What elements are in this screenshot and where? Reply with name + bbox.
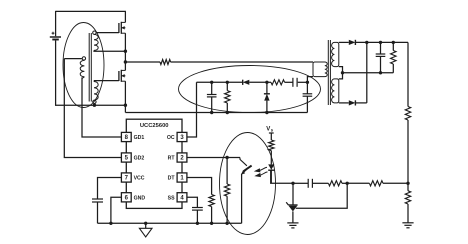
svg-text:OC: OC (167, 135, 175, 141)
node D2 top junction (265, 81, 268, 84)
node GND riser on rail (109, 222, 112, 225)
wire DT pin to Rdt (187, 178, 212, 195)
wire center-tap rail (343, 72, 394, 74)
wire D1 anode to D2 node (249, 81, 267, 83)
node TL431 ref riser (346, 182, 349, 185)
opto U2 LED (268, 164, 274, 169)
wire switch node to series resistor (125, 61, 160, 63)
resistor Rdt (209, 195, 214, 207)
node signal-ground symbol junction (144, 222, 147, 225)
T1 secondary 2 phase-dot (93, 100, 96, 103)
capacitor Coc1 (207, 82, 217, 112)
resistor Roc2 (267, 81, 271, 83)
wire RT pin to opto collector (187, 157, 240, 159)
wire riser from D4 to output rail (366, 42, 368, 103)
svg-text:RT: RT (168, 156, 176, 162)
wire VCC pin to decoupling cap (98, 178, 122, 200)
wire Q1 source to switch node (124, 51, 126, 62)
highlight ellipse: gate-drive transformer (63, 23, 104, 108)
wire D4 cathode to output rail riser (356, 102, 367, 104)
ground (signal, triangle) (139, 223, 152, 237)
wire T1 sec2 dot to return rail (93, 103, 95, 105)
node resonant cap junction (306, 81, 309, 84)
svg-text:VCC: VCC (134, 176, 145, 182)
node Rrt on ground rail (225, 222, 228, 225)
wire T2 sec top-half to rectifier D3 (339, 41, 349, 43)
gate-drive transformer T1 primary winding (64, 59, 84, 79)
node RT resistor tap (225, 156, 228, 159)
node switch node (half-bridge midpoint) (124, 60, 127, 63)
wire T1 sec1 return to Q1 source node (94, 49, 125, 52)
wire ground rail (98, 222, 242, 224)
highlight ellipse: optocoupler feedback (220, 133, 276, 235)
resistor Rfb2 (328, 181, 342, 186)
wire output rail (356, 41, 408, 43)
node Roc1 top (226, 81, 229, 84)
wire T2 sec bottom-half to rectifier D4 (339, 102, 349, 104)
main transformer T2 core (327, 40, 329, 105)
wire resistor to T2 primary (171, 61, 313, 63)
T1 secondary winding 1 (top, drives Q1) (94, 34, 98, 50)
pin 8 GD1 (121, 132, 131, 141)
IC U1 UCC25600 box (126, 119, 182, 208)
battery VIN (DC bus source) (50, 11, 61, 106)
node T1 sec2 return on rail (93, 104, 96, 107)
T2 secondary winding (bottom half) (332, 79, 339, 103)
wire output rail down to divider (407, 42, 409, 106)
T2 secondary winding (top half) (332, 42, 339, 66)
node Rdt on ground rail (210, 222, 213, 225)
opto light arrows (258, 167, 267, 171)
svg-text:GND: GND (134, 195, 146, 201)
node Coc1 top (210, 81, 213, 84)
svg-text:GD1: GD1 (134, 135, 145, 141)
highlight ellipse: resonant/OC sense network (179, 66, 321, 113)
resistor lower divider (407, 183, 409, 191)
GD1 wire: pin 8 to T1 primary bottom (82, 77, 121, 137)
pin 5 GD2 (121, 153, 131, 162)
svg-text:V: V (266, 127, 270, 133)
MOSFET Q2 (low side) (119, 62, 126, 105)
resistor Roc1 (225, 82, 230, 112)
wire SS pin to soft-start cap (187, 197, 198, 207)
T1 secondary 1 phase-dot (93, 31, 96, 34)
pin 1 DT (177, 173, 187, 182)
diode D1 (clamp, pointing left) (243, 80, 250, 85)
node Roc1 bottom (226, 111, 229, 114)
ground (output divider) (402, 222, 413, 224)
GD2 wire: pin 5 to T1 primary top (64, 59, 121, 158)
svg-text:s: s (271, 127, 274, 132)
node Q2 source / return rail junction (124, 104, 127, 107)
pin 7 VCC (121, 173, 131, 182)
diode D2 (clamp, pointing up) (264, 82, 270, 112)
wire T1 sec1 dot to Q1 gate (96, 32, 119, 34)
main transformer T2 primary winding (313, 62, 327, 77)
resistor Rfb1 (369, 181, 383, 186)
wire OC pin to sense network (187, 82, 197, 137)
node TL431 cathode junction (291, 182, 294, 185)
node center tap (341, 71, 344, 74)
T1 secondary winding 2 (bottom, drives Q2) (94, 82, 98, 101)
wire GND pin to ground rail (111, 197, 122, 223)
wire to opto LED (271, 170, 293, 183)
resistor Rbias (opto LED pull-up) (269, 133, 274, 164)
ground (TL431 anode) (287, 222, 298, 224)
node Coc1 bottom (210, 111, 213, 114)
wire TL431 reference to divider (296, 183, 347, 208)
node feedback tap (406, 182, 409, 185)
wire T2 primary bottom to resonant cap node (307, 77, 313, 83)
capacitor Cfb (series) (313, 182, 328, 184)
MOSFET Q1 (high side) (119, 11, 126, 51)
svg-text:SS: SS (168, 195, 175, 201)
resistor Rrt (224, 158, 229, 224)
Vs terminal tick (269, 132, 274, 134)
pin 3 OC (177, 132, 187, 141)
capacitor Coc2 (series) (285, 81, 293, 83)
node output cap on rail (379, 41, 382, 44)
opto U2 phototransistor (240, 158, 252, 224)
resistor Rout (preload) (391, 42, 396, 72)
capacitor Cr (resonant) (303, 82, 313, 112)
node D4 riser on output rail (365, 41, 368, 44)
resistor Rload (upper divider) (405, 107, 410, 121)
pin 6 GND (121, 193, 131, 202)
wire T1 sec2 top to Q2 gate (94, 80, 119, 82)
node output resistor on rail (392, 41, 395, 44)
node Q1 source / T1 sec1 return junction (124, 50, 127, 53)
pin 4 SS (177, 193, 187, 202)
wire OC network bottom bus (125, 112, 307, 114)
capacitor C_vcc (92, 198, 103, 200)
resistor Rg (resonant/series) (160, 60, 171, 65)
svg-text:GD2: GD2 (134, 156, 145, 162)
svg-text:DT: DT (168, 176, 176, 182)
capacitor Css (192, 207, 203, 209)
wire Rfb1 to divider node (347, 182, 369, 184)
node Css on ground rail (196, 222, 199, 225)
pin 2 RT (177, 153, 187, 162)
wire T2 sec top-half bottom to center tap (339, 67, 343, 73)
wire feedback rail (383, 182, 408, 184)
diode D4 (bottom rectifier) (349, 100, 356, 105)
node D2 bottom (265, 111, 268, 114)
gate-drive transformer T1 core (88, 33, 90, 102)
wire top rail from battery + to Q1 drain (56, 10, 126, 12)
node Cout bottom on center-tap rail (379, 71, 382, 74)
TL431 shunt regulator U3 (286, 183, 297, 222)
wire OC network top bus (197, 81, 243, 83)
svg-text:UCC25600: UCC25600 (140, 123, 169, 129)
T1 primary phase-dot terminal (82, 57, 85, 60)
wire cap to TL431 cathode node (293, 182, 308, 184)
wire bottom return rail (55, 104, 125, 106)
diode D3 (top rectifier) (349, 40, 356, 45)
capacitor Cout (376, 42, 386, 72)
wire T2 sec bottom-half top to center tap (339, 73, 343, 79)
